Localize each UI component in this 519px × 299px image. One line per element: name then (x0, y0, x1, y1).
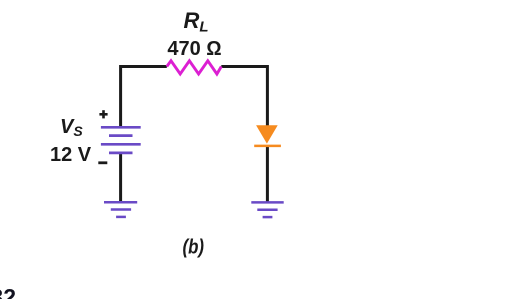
wire: top-left L segment from battery top to resistor left lead (121, 67, 167, 128)
wire: top-right L segment from resistor right lead to diode anode (221, 67, 267, 127)
plus sign at battery positive terminal (99, 110, 107, 118)
battery VS plate 2 (short) (109, 134, 133, 137)
diode D1 anode triangle (256, 125, 278, 143)
battery VS plate 1 (long, positive) (101, 126, 141, 129)
svg-text:470 Ω: 470 Ω (167, 38, 221, 60)
svg-text:32: 32 (0, 284, 16, 299)
wire: battery negative terminal down to left ground (119, 153, 122, 203)
svg-text:(b): (b) (183, 237, 205, 259)
wire: diode cathode down to right ground (266, 146, 269, 202)
diode D1 cathode bar (254, 145, 281, 148)
right ground symbol (251, 202, 283, 217)
left ground symbol (104, 202, 137, 217)
minus sign at battery negative terminal (98, 161, 107, 164)
svg-text:12 V: 12 V (50, 144, 92, 166)
battery VS plate 3 (long) (101, 143, 141, 146)
resistor RL zigzag (167, 61, 222, 74)
battery VS plate 4 (short, negative) (109, 152, 133, 155)
